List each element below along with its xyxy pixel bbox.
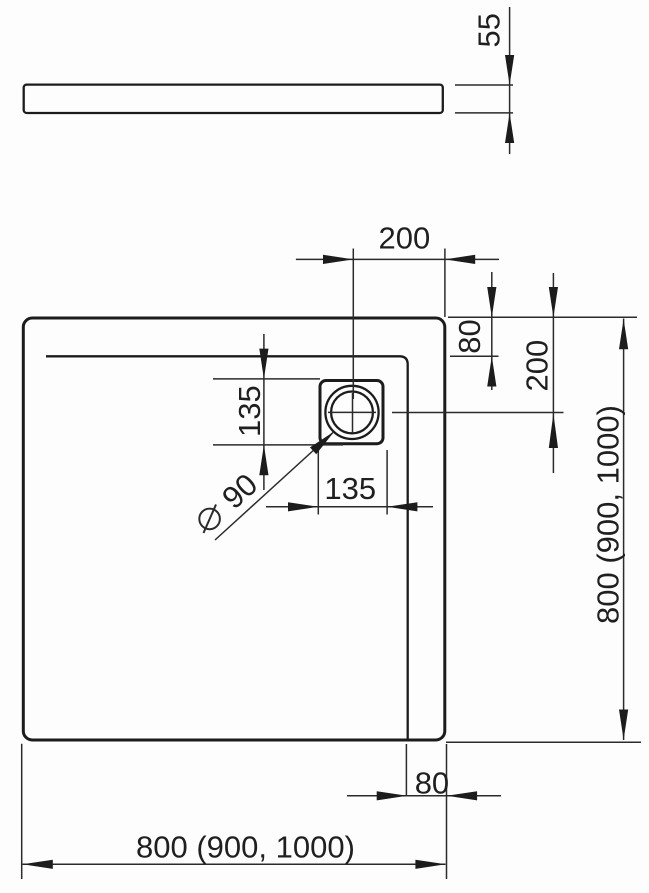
dim 200 right line: [552, 273, 554, 473]
bottom right corner ext line: [446, 741, 641, 743]
drain crosshair horizontal: [328, 411, 376, 413]
drain crosshair vertical: [352, 393, 354, 432]
dim 200 top center ext line: [352, 249, 354, 400]
dim 800 bottom arrow left: [23, 860, 53, 869]
svg-text:90: 90: [215, 467, 264, 516]
tray outer square: [23, 318, 445, 740]
drain square: [320, 381, 383, 444]
svg-text:135: 135: [232, 385, 267, 437]
svg-text:200: 200: [379, 221, 431, 256]
dim 800 right arrow up: [619, 319, 628, 349]
tray side-view slab: [24, 85, 443, 113]
dim 200 top arrow left: [445, 255, 475, 264]
dim 80 bottom arrow left: [447, 791, 477, 800]
dim 55 arrow up: [505, 113, 514, 143]
dim 55 arrow down: [505, 55, 514, 85]
dim 135 vertical ext bottom: [213, 444, 343, 446]
dim 200 top arrow right: [323, 255, 353, 264]
svg-text:800 (900, 1000): 800 (900, 1000): [591, 405, 626, 624]
drain leader arrowhead: [310, 431, 335, 454]
svg-text:800 (900, 1000): 800 (900, 1000): [136, 830, 355, 865]
dim 800 right arrow down: [619, 710, 628, 740]
dim 800 bottom line: [23, 863, 446, 865]
dim 800 bottom ext left: [21, 744, 23, 879]
svg-text:135: 135: [324, 471, 376, 506]
dim 200 top line: [296, 258, 499, 260]
dim 135 vertical ext top: [213, 378, 320, 380]
dim 135 vertical line: [263, 334, 265, 490]
dim 55 ext line top: [455, 84, 513, 86]
dim 135 horizontal arrow right: [288, 502, 318, 511]
dim 80 right arrow down: [487, 287, 496, 317]
dim 200 top right ext line: [444, 249, 446, 318]
dim 800 bottom arrow right: [415, 860, 445, 869]
dim 200 right arrow up: [549, 414, 558, 449]
dim 80 right arrow up: [487, 356, 496, 386]
svg-text:200: 200: [520, 340, 555, 392]
dim 80 bottom arrow right: [377, 791, 407, 800]
dim 135 vertical arrow up: [259, 445, 268, 475]
dim 135 horizontal ext right: [386, 450, 388, 515]
dim 80 right line: [491, 272, 493, 390]
dim 55 ext line bottom: [455, 112, 513, 114]
tray inner contour: [46, 356, 408, 739]
dim 80 bottom ext right: [446, 744, 448, 879]
dim 135 horizontal ext left: [317, 449, 319, 515]
dim 135 horizontal line: [266, 506, 433, 508]
drain diameter symbol circle: [199, 509, 220, 530]
drain inner circle: [331, 392, 373, 434]
dim 80 bottom ext left: [405, 744, 407, 796]
dim 800 right line: [623, 319, 625, 741]
drain diameter symbol slash: [204, 505, 217, 534]
drain leader line: [215, 433, 333, 541]
svg-text:55: 55: [472, 13, 507, 47]
svg-text:80: 80: [452, 319, 487, 353]
drain center right ext line: [392, 412, 564, 414]
svg-text:80: 80: [415, 766, 449, 801]
dim 80 bottom line: [347, 795, 501, 797]
dim 55 line: [509, 7, 511, 154]
top edge right ext line: [448, 316, 637, 318]
dim 135 vertical arrow down: [259, 349, 268, 379]
inner contour right ext line: [450, 355, 499, 357]
dim 200 right arrow down: [549, 287, 558, 317]
drain outer circle: [325, 386, 378, 439]
dim 135 horizontal arrow left: [387, 502, 417, 511]
